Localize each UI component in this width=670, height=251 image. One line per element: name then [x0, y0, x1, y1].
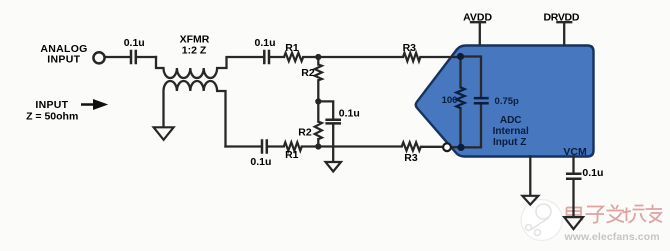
svg-text:www.elecfans.com: www.elecfans.com [564, 231, 660, 243]
svg-text:R1: R1 [285, 42, 299, 54]
svg-text:DRVDD: DRVDD [543, 12, 579, 24]
svg-text:0.1u: 0.1u [124, 37, 145, 49]
svg-text:0.1u: 0.1u [582, 167, 603, 179]
svg-text:0.75p: 0.75p [495, 96, 519, 107]
svg-text:INPUT: INPUT [47, 53, 80, 65]
svg-text:0.1u: 0.1u [254, 37, 275, 49]
svg-text:0.1u: 0.1u [250, 156, 271, 168]
svg-text:VCM: VCM [563, 146, 587, 158]
svg-text:Input Z: Input Z [493, 137, 526, 148]
svg-text:1:2 Z: 1:2 Z [182, 44, 207, 56]
svg-text:AVDD: AVDD [463, 12, 492, 24]
svg-text:Internal: Internal [493, 126, 529, 137]
svg-text:INPUT: INPUT [35, 99, 68, 111]
svg-text:R2: R2 [301, 67, 315, 79]
svg-text:R2: R2 [298, 127, 312, 139]
svg-text:R1: R1 [285, 149, 299, 161]
svg-text:R3: R3 [403, 42, 417, 54]
svg-text:Z = 50ohm: Z = 50ohm [26, 111, 78, 123]
svg-text:R3: R3 [404, 152, 418, 164]
svg-text:100: 100 [442, 95, 458, 106]
svg-text:0.1u: 0.1u [339, 108, 360, 120]
svg-text:ADC: ADC [500, 115, 522, 126]
